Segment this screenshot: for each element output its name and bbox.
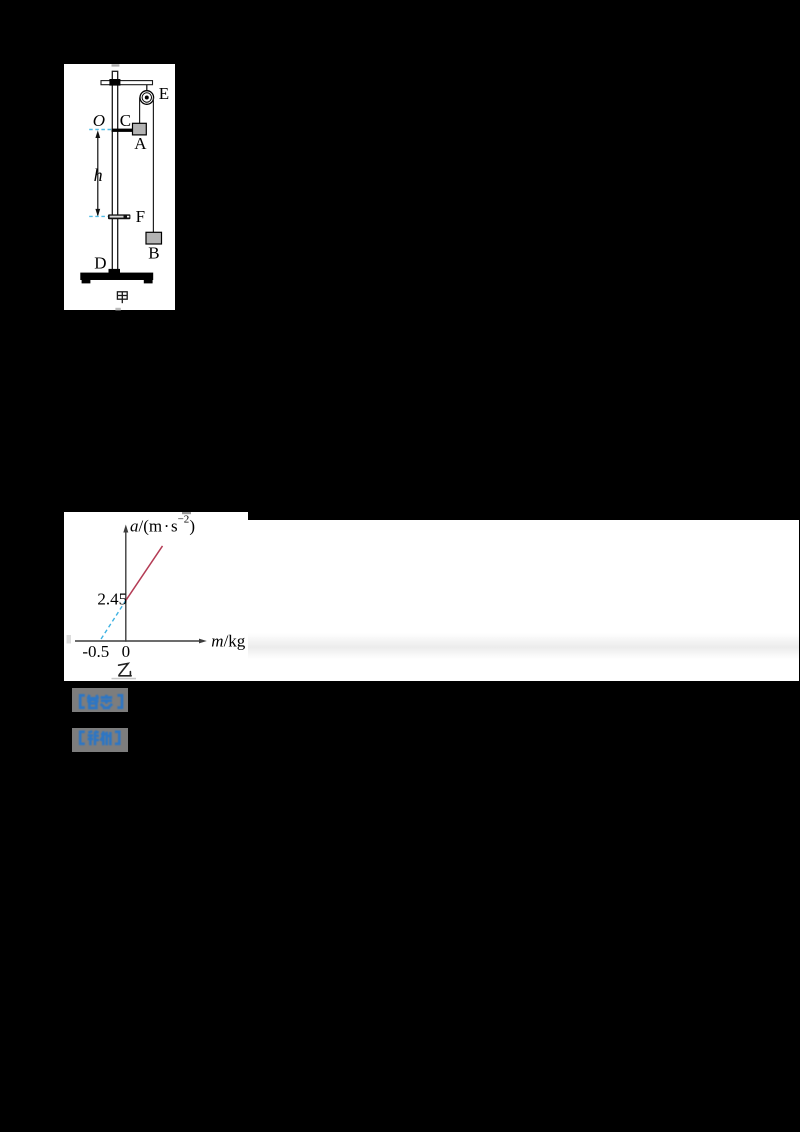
svg-text:E: E (159, 84, 169, 103)
svg-text:F: F (136, 206, 145, 225)
cyan dashed extension (100, 600, 126, 641)
top gray tick (111, 64, 119, 66)
base slab (80, 272, 153, 279)
right bracket (115, 732, 119, 744)
svg-text:2.45: 2.45 (97, 590, 127, 609)
char xi (100, 731, 110, 745)
char da (86, 695, 98, 702)
char jie (87, 731, 98, 745)
figure yi: graph white box (64, 512, 248, 680)
svg-text:O: O (93, 110, 105, 129)
svg-text:C: C (120, 110, 131, 129)
white text band behind graph (64, 520, 799, 681)
left string (139, 97, 141, 123)
bottom faint tick (115, 307, 120, 310)
svg-text:h: h (94, 165, 103, 185)
clamp F bar (108, 214, 130, 219)
left bracket (80, 732, 85, 744)
svg-text:A: A (134, 134, 147, 153)
clamp block on rod (109, 78, 120, 85)
cyan dashed level line at O (89, 128, 113, 130)
right string (152, 97, 154, 232)
left bracket (80, 695, 85, 707)
svg-text:a/(m·s−2): a/(m·s−2) (130, 514, 195, 536)
rod (vertical stand) (112, 71, 117, 272)
base feet (82, 279, 91, 282)
mass B box (146, 232, 161, 244)
faint top-edge artifact (182, 512, 191, 514)
crossbar (101, 80, 152, 84)
char an (100, 694, 112, 708)
svg-text:D: D (94, 253, 106, 272)
pulley mount line (146, 84, 148, 91)
right bracket (117, 695, 122, 707)
faint mark under yi (112, 678, 137, 680)
svg-text:-0.5: -0.5 (82, 642, 109, 661)
cyan dashed level line at F (89, 215, 108, 217)
red data line (126, 546, 163, 600)
label yi (Chinese) (119, 663, 132, 675)
faint gray stripe in band (240, 633, 799, 659)
y axis (125, 531, 127, 642)
svg-text:m/kg: m/kg (211, 631, 246, 650)
svg-text:0: 0 (122, 642, 131, 661)
label jia (Chinese) (117, 291, 127, 302)
rod-base block (108, 268, 119, 273)
figure jia: apparatus white box (64, 64, 175, 310)
x axis (75, 640, 201, 642)
object A box (132, 123, 146, 135)
button answer (72, 688, 128, 712)
button analysis (72, 728, 128, 752)
svg-text:B: B (148, 243, 159, 262)
clamp bar C to A (112, 128, 133, 131)
faint left blob artifact (67, 635, 72, 644)
pulley E (140, 90, 154, 104)
h measurement arrow (97, 132, 99, 214)
